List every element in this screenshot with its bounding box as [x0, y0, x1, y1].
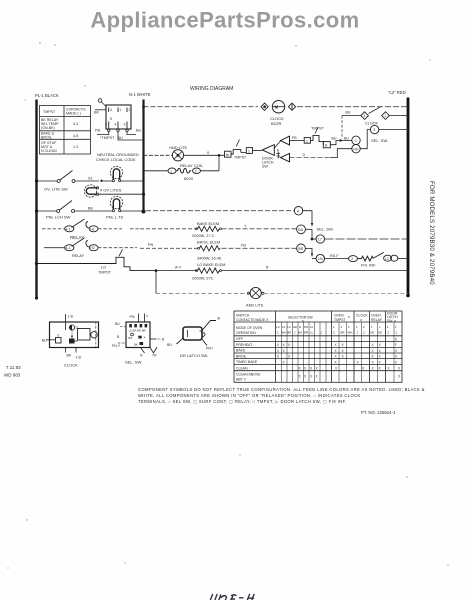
svg-text:SW.: SW. [262, 165, 269, 169]
svg-text:TMPST: TMPST [43, 110, 56, 114]
svg-text:TMPST: TMPST [234, 155, 247, 159]
svg-text:BU: BU [346, 111, 351, 115]
svg-text:SEL. SW.: SEL. SW. [371, 138, 388, 143]
svg-text:2: 2 [351, 257, 353, 261]
wire D [290, 157, 331, 159]
tmpst bottom leads [97, 129, 144, 140]
svg-text:C: C [333, 331, 335, 335]
door latch switch [183, 327, 202, 340]
mode table subcolumn lines [282, 322, 395, 382]
svg-text:L2: L2 [385, 257, 389, 261]
svg-text:"L2" RED: "L2" RED [388, 90, 406, 95]
fix inf fuse row [349, 256, 358, 262]
svg-text:HD: HD [293, 325, 297, 329]
clock diamond contact 1 [382, 112, 390, 120]
svg-text:PNL LCH SW: PNL LCH SW [46, 215, 71, 220]
svg-text:OV. LITE SW: OV. LITE SW [44, 187, 68, 192]
svg-text:OFF: OFF [236, 337, 243, 341]
svg-text:1: 1 [128, 108, 130, 112]
svg-text:L2: L2 [282, 325, 286, 329]
lamp OV LITE 1 [110, 166, 122, 181]
wire row to sel sw A [121, 210, 144, 212]
svg-text:PN?: PN? [206, 347, 213, 351]
svg-text:4-1: 4-1 [66, 246, 71, 250]
clock motor [91, 332, 97, 338]
svg-text:N: N [299, 325, 301, 329]
svg-text:BR: BR [304, 331, 308, 335]
wire top bus L2 [144, 106, 259, 108]
svg-text:(ON-BK): (ON-BK) [41, 126, 55, 130]
element BAKE [140, 228, 197, 230]
svg-text:M2: M2 [378, 331, 382, 335]
clock cam rect [78, 329, 91, 341]
door latch sw triangle [262, 145, 274, 156]
svg-text:LN: LN [318, 257, 323, 261]
svg-text:CLEAN: CLEAN [236, 366, 248, 370]
svg-text:A-Y: A-Y [175, 265, 182, 269]
clock top lead 1B [65, 314, 67, 330]
svg-text:3: 3 [363, 114, 365, 118]
mode table subheader letters [276, 325, 397, 335]
svg-text:4-5: 4-5 [73, 134, 78, 138]
svg-text:*TMPST: *TMPST [100, 136, 115, 140]
sel sw bottom leads [141, 348, 145, 354]
svg-text:BR: BR [298, 247, 303, 251]
svg-text:H2: H2 [90, 246, 94, 250]
svg-text:S1: S1 [88, 177, 93, 181]
svg-text:o: o [360, 318, 362, 322]
svg-text:PH: PH [304, 325, 308, 329]
svg-text:PB: PB [95, 129, 101, 133]
svg-text:o: o [302, 319, 304, 323]
svg-text:FIX. INF.: FIX. INF. [361, 263, 376, 268]
svg-text:1: 1 [119, 108, 121, 112]
svg-text:4: 4 [110, 108, 112, 112]
tmpst contacts table [40, 106, 91, 155]
svg-text:F: F [395, 343, 397, 347]
sel sw circle BR [297, 244, 306, 253]
thermostat switch hi [231, 150, 241, 154]
svg-text:BU: BU [344, 136, 349, 140]
svg-text:RELAY: RELAY [72, 254, 85, 258]
svg-text:AND LITE: AND LITE [246, 303, 264, 308]
svg-text:SEL. SW: SEL. SW [125, 360, 141, 365]
svg-text:1-3: 1-3 [73, 145, 78, 149]
terminal box 1 [246, 148, 252, 154]
svg-text:2000W, 2? C: 2000W, 2? C [192, 233, 215, 238]
svg-text:M1: M1 [371, 331, 375, 335]
sel sw circle A [294, 207, 302, 215]
svg-text:BAKE ELEM: BAKE ELEM [197, 221, 219, 226]
svg-text:BU: BU [118, 136, 124, 140]
terminal box B [323, 142, 330, 148]
svg-text:CHECK LOCAL CODE: CHECK LOCAL CODE [96, 157, 136, 162]
selector switch box [126, 322, 150, 348]
svg-text:L2 BA HD BR: L2 BA HD BR [129, 329, 146, 333]
switch OV LITE SW [35, 179, 38, 182]
svg-text:1: 1 [306, 139, 308, 143]
svg-text:OPERATION: OPERATION [236, 331, 256, 335]
svg-text:WIRING DIAGRAM: WIRING DIAGRAM [190, 86, 233, 92]
svg-text:BK: BK [67, 354, 72, 358]
svg-text:4: 4 [115, 123, 117, 127]
svg-text:PT. NO. 225524-1: PT. NO. 225524-1 [361, 410, 396, 415]
svg-text:2: 2 [373, 128, 375, 132]
svg-text:BR: BR [341, 331, 345, 335]
svg-text:BAKE: BAKE [236, 349, 246, 353]
svg-text:MADE ( ): MADE ( ) [66, 112, 81, 116]
sel sw circle LN [316, 254, 324, 262]
sel sw left wires [120, 325, 126, 327]
svg-text:1: 1 [170, 169, 172, 173]
svg-text:LO BAKE ELEM: LO BAKE ELEM [197, 262, 225, 267]
svg-text:L7: L7 [318, 238, 322, 242]
relay contact row 1 [42, 228, 65, 230]
and lite riser [155, 271, 157, 294]
svg-text:L2: L2 [310, 325, 314, 329]
svg-text:SW. o: SW. o [387, 319, 396, 323]
svg-text:4-3: 4-3 [73, 122, 78, 126]
element BROIL [140, 247, 199, 249]
svg-text:FB: FB [292, 136, 297, 140]
svg-text:H1: H1 [90, 227, 94, 231]
svg-text:CLEAN ABOVE: CLEAN ABOVE [236, 373, 261, 377]
svg-text:RELAY COIL: RELAY COIL [180, 163, 204, 168]
svg-text:CLOCK: CLOCK [356, 314, 368, 318]
tmpst connector block [106, 105, 131, 129]
svg-text:5: 5 [110, 117, 112, 121]
svg-text:PN-Y: PN-Y [112, 344, 121, 348]
switch PNL LCH SW [35, 209, 38, 212]
svg-text:8003: 8003 [184, 176, 194, 181]
mode table X marks [277, 338, 401, 379]
clock buzzer motor circle [272, 101, 285, 113]
svg-text:2: 2 [195, 169, 197, 173]
svg-text:LL: LL [310, 331, 314, 335]
element LO BAKE [155, 269, 158, 272]
handwriting mark [210, 595, 254, 600]
svg-text:3400W, 16.4E: 3400W, 16.4E [197, 256, 222, 261]
svg-text:BA: BA [298, 331, 302, 335]
svg-text:MODE OF OVEN: MODE OF OVEN [236, 326, 263, 330]
svg-text:BA: BA [129, 336, 133, 340]
svg-text:BR: BR [287, 331, 291, 335]
svg-text:4-1: 4-1 [66, 227, 71, 231]
svg-text:BROIL: BROIL [41, 136, 52, 140]
mode table header text [236, 312, 398, 336]
svg-text:DR LATCH SW.: DR LATCH SW. [180, 353, 208, 358]
terminal box 1 (second) [304, 138, 310, 144]
svg-text:BU: BU [42, 338, 47, 342]
svg-text:C: C [355, 139, 358, 143]
svg-text:# OV LITES: # OV LITES [100, 188, 122, 193]
sel sw terminals [129, 324, 132, 327]
sel sw circle C [352, 136, 360, 144]
svg-text:BZZR: BZZR [271, 121, 282, 126]
buffer triangle 2 [281, 136, 290, 145]
mode table frame [234, 311, 402, 382]
svg-text:5: 5 [105, 123, 107, 127]
svg-text:2000W, 27C: 2000W, 27C [192, 276, 214, 281]
svg-text:L2: L2 [288, 325, 292, 329]
clock assembly box [50, 322, 99, 348]
svg-text:HD: HD [353, 147, 359, 151]
svg-text:M: M [275, 105, 279, 110]
svg-text:1b: 1b [226, 153, 230, 157]
svg-text:BROIL: BROIL [236, 354, 247, 358]
svg-text:WH: WH [348, 331, 353, 335]
pin Q lead [98, 99, 102, 103]
sel sw circle HD [352, 145, 360, 153]
clock diamond contact 3 [361, 112, 369, 120]
relay coil row [144, 170, 169, 172]
svg-text:860° F: 860° F [236, 378, 246, 382]
clock contact D [69, 325, 74, 330]
svg-text:X: X [144, 336, 146, 340]
wire diagonal up [274, 141, 280, 148]
wire N feeder (second vertical) [142, 100, 144, 212]
svg-text:BROIL ELEM: BROIL ELEM [197, 240, 220, 245]
svg-text:3: 3 [57, 334, 59, 338]
wire L1 feeder (left vertical) [35, 100, 37, 299]
lamp OV LITE 2 (sideways) [84, 185, 98, 197]
sel sw circle L7 [311, 238, 314, 241]
svg-text:CLOCK: CLOCK [64, 363, 78, 368]
svg-text:o: o [348, 315, 350, 319]
svg-text:BK: BK [134, 342, 138, 346]
svg-text:1 B: 1 B [68, 315, 74, 319]
svg-text:PN: PN [148, 243, 154, 247]
svg-text:RD-F: RD-F [330, 254, 339, 258]
svg-text:1 B: 1 B [76, 356, 82, 360]
svg-text:TERMINALS, ○ SEL SW, ▢ SURF CO: TERMINALS, ○ SEL SW, ▢ SURF CONT, ▢ RELA… [138, 399, 347, 404]
svg-text:TMPST: TMPST [334, 318, 346, 322]
wire BU riser [341, 116, 343, 139]
svg-text:PL-1 BLACK: PL-1 BLACK [35, 93, 59, 98]
clock terminal 4 [69, 339, 75, 344]
svg-text:FB: FB [241, 243, 246, 247]
svg-text:BA: BA [298, 228, 303, 232]
clock buzzer diamond 2 [288, 103, 295, 110]
svg-text:7.11 83: 7.11 83 [6, 365, 21, 370]
relay contact row 2 [44, 247, 65, 249]
svg-text:PNL L.TS: PNL L.TS [106, 215, 124, 220]
svg-text:C: C [277, 331, 279, 335]
svg-text:PN: PN [130, 315, 135, 319]
svg-text:BU: BU [115, 322, 120, 326]
mode table row labels [236, 337, 261, 382]
svg-text:N-1 WHITE: N-1 WHITE [129, 92, 151, 97]
svg-text:TMPST: TMPST [98, 271, 112, 275]
wire hnd lite row [144, 154, 173, 156]
svg-text:AppliancePartsPros.com: AppliancePartsPros.com [90, 8, 359, 33]
tmpst pins [109, 108, 127, 130]
svg-text:SEL. SW.: SEL. SW. [317, 227, 334, 232]
svg-text:D: D [303, 153, 306, 157]
sel sw circle BA [297, 225, 306, 234]
svg-text:CONTACTS MADE X: CONTACTS MADE X [236, 318, 269, 322]
svg-text:PREHEAT: PREHEAT [236, 343, 253, 347]
svg-text:1: 1 [384, 114, 386, 118]
svg-text:CLOCK: CLOCK [365, 122, 379, 126]
svg-text:COMPONENT SYMBOLS DO NOT REFLE: COMPONENT SYMBOLS DO NOT REFLECT TRUE CO… [138, 387, 425, 392]
svg-text:BA: BA [282, 331, 286, 335]
wire HD right up to clock 2 [360, 130, 370, 149]
svg-text:C: C [294, 331, 296, 335]
svg-text:3: 3 [124, 123, 126, 127]
wire HD left to D wire [330, 149, 352, 158]
clock buzzer diamond 1 [261, 103, 268, 110]
svg-text:TR: TR [152, 354, 157, 358]
svg-text:BK: BK [88, 207, 94, 211]
terminal B cap [277, 152, 281, 159]
sel sw right lead [150, 338, 156, 340]
svg-text:N CLEAN: N CLEAN [41, 149, 57, 153]
wire L2 feeder (right vertical) [407, 98, 410, 296]
svg-text:BU: BU [136, 129, 142, 133]
svg-text:FOR MODELS 2079B30 & 2079B40: FOR MODELS 2079B30 & 2079B40 [428, 181, 435, 285]
svg-text:LO: LO [101, 266, 106, 270]
svg-text:T: T [146, 315, 148, 319]
svg-text:SELECTOR SW.: SELECTOR SW. [288, 316, 313, 320]
svg-text:BK: BK [94, 111, 100, 115]
svg-text:BU: BU [167, 343, 172, 347]
svg-text:WHITE. ALL COMPONENTS ARE SHO: WHITE. ALL COMPONENTS ARE SHOWN IN “OFF”… [138, 393, 361, 398]
svg-text:WD 983: WD 983 [4, 373, 21, 378]
svg-text:HND LITE: HND LITE [169, 145, 188, 150]
lamp AND LITE [250, 287, 261, 298]
terminal box 1b [225, 151, 232, 157]
note component symbols [138, 387, 425, 404]
svg-text:TIMED BAKE: TIMED BAKE [236, 360, 258, 364]
svg-text:1: 1 [248, 149, 250, 153]
thermostat LO TMPST [35, 262, 38, 265]
svg-text:BU: BU [332, 136, 337, 140]
clock bottom leads [65, 348, 67, 353]
switch blade diagonal [369, 107, 381, 114]
lamp PNL LTS [110, 196, 122, 211]
svg-text:RELAY: RELAY [371, 318, 383, 322]
buffer triangle 3 [281, 153, 290, 161]
svg-text:L2: L2 [276, 325, 280, 329]
